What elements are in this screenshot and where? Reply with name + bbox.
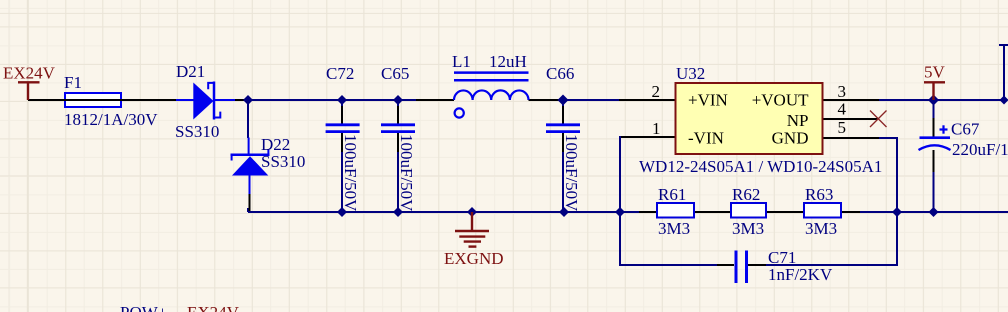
svg-text:U32: U32 (676, 64, 705, 83)
svg-text:4: 4 (838, 100, 847, 119)
svg-text:C67: C67 (951, 120, 980, 139)
svg-text:1nF/2KV: 1nF/2KV (768, 265, 833, 284)
svg-text:+VOUT: +VOUT (752, 90, 809, 109)
svg-text:3M3: 3M3 (732, 219, 764, 238)
svg-text:SS310: SS310 (261, 152, 305, 171)
svg-text:F1: F1 (64, 73, 82, 92)
svg-text:+VIN: +VIN (688, 90, 728, 109)
svg-text:C66: C66 (546, 64, 574, 83)
svg-text:EX24V: EX24V (3, 64, 56, 83)
svg-text:3: 3 (838, 82, 847, 101)
svg-text:R61: R61 (658, 185, 686, 204)
svg-text:D21: D21 (176, 62, 205, 81)
svg-text:R63: R63 (805, 185, 833, 204)
svg-text:2: 2 (652, 82, 661, 101)
svg-text:NP: NP (787, 111, 809, 130)
svg-text:-VIN: -VIN (688, 129, 724, 148)
svg-text:12uH: 12uH (489, 52, 527, 71)
svg-text:3M3: 3M3 (658, 219, 690, 238)
svg-text:C72: C72 (326, 64, 354, 83)
svg-text:1: 1 (652, 119, 661, 138)
svg-text:C65: C65 (381, 64, 409, 83)
svg-text:100uF/50V: 100uF/50V (562, 134, 581, 212)
svg-text:EXGND: EXGND (444, 249, 504, 268)
svg-text:3M3: 3M3 (805, 219, 837, 238)
svg-text:R62: R62 (732, 185, 760, 204)
svg-text:WD12-24S05A1 / WD10-24S05A1: WD12-24S05A1 / WD10-24S05A1 (639, 157, 882, 176)
svg-text:EX24V: EX24V (187, 303, 240, 312)
svg-text:POW+: POW+ (120, 303, 167, 312)
svg-text:GND: GND (772, 129, 809, 148)
svg-text:100uF/50V: 100uF/50V (341, 134, 360, 212)
svg-text:5: 5 (838, 118, 847, 137)
svg-text:5V: 5V (924, 63, 946, 82)
svg-text:220uF/16V: 220uF/16V (952, 140, 1008, 159)
svg-text:1812/1A/30V: 1812/1A/30V (64, 110, 158, 129)
svg-text:L1: L1 (452, 52, 471, 71)
svg-text:100uF/50V: 100uF/50V (397, 134, 416, 212)
svg-text:SS310: SS310 (175, 122, 219, 141)
